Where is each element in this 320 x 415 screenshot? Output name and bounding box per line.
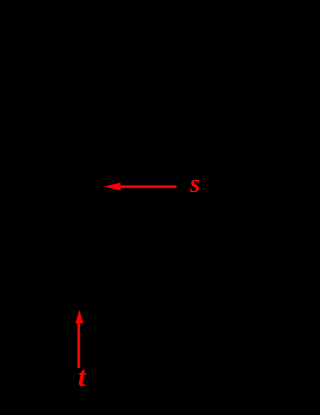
node t label: [78, 364, 86, 392]
node s arrow (red annotation arrow pointing left to node s): [104, 183, 177, 191]
node t arrow (red annotation arrow pointing up to node t): [75, 310, 83, 368]
node s label: [190, 171, 200, 197]
